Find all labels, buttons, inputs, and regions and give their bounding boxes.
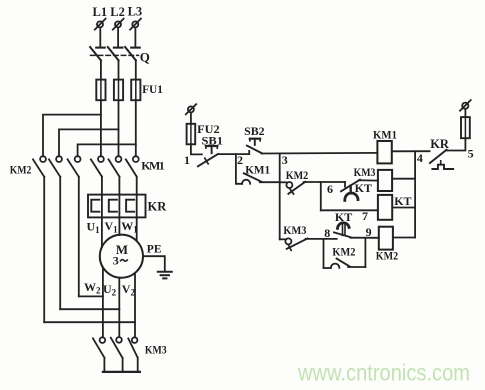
wire PE bbox=[143, 256, 165, 271]
KR heater element 3 bbox=[126, 200, 134, 212]
svg-text:L2: L2 bbox=[110, 5, 125, 19]
svg-text:5: 5 bbox=[468, 146, 474, 160]
contactor KM1 main contact 2 bbox=[109, 156, 122, 176]
wire KM3 star bus bbox=[103, 371, 140, 373]
wire FU2 to node 1 bbox=[191, 144, 202, 154]
wire KM2 pole2 down bbox=[59, 177, 61, 309]
fuse FU2 bbox=[187, 124, 196, 145]
svg-text:KT: KT bbox=[355, 181, 372, 195]
contact KM1 aux (NO) bbox=[242, 173, 280, 183]
svg-text:KT: KT bbox=[335, 210, 352, 224]
motor M circle bbox=[100, 235, 143, 278]
svg-text:FU1: FU1 bbox=[142, 82, 163, 96]
switch Q pole 1 bbox=[90, 47, 105, 60]
wire tap L2 to KM2 pole 2 bbox=[59, 129, 119, 156]
terminal L2 bbox=[113, 19, 124, 30]
ground PE symbol bbox=[158, 272, 172, 279]
svg-text:U2: U2 bbox=[103, 282, 117, 298]
fuse FU2 right pole bbox=[461, 117, 470, 138]
svg-text:V2: V2 bbox=[122, 282, 136, 298]
contact KT (NC delayed) bbox=[341, 180, 360, 201]
svg-text:KM3: KM3 bbox=[283, 223, 306, 237]
coil KM2 bbox=[379, 227, 393, 250]
switch Q pole 3 bbox=[125, 47, 140, 60]
pushbutton SB1 release tick bbox=[205, 158, 208, 164]
wire L2 to Q bbox=[117, 28, 119, 48]
wire node6 down to row B bbox=[320, 182, 322, 210]
svg-text:KR: KR bbox=[430, 137, 450, 151]
fuse FU1 pole 1 bbox=[96, 80, 105, 101]
svg-text:SB2: SB2 bbox=[244, 124, 265, 138]
wire terminal to FU2 bbox=[190, 113, 192, 124]
svg-text:4: 4 bbox=[417, 151, 423, 165]
svg-text:KM1: KM1 bbox=[245, 162, 270, 176]
KR actuator bump bbox=[432, 165, 453, 169]
svg-text:8: 8 bbox=[324, 226, 330, 240]
wire L3 to Q bbox=[134, 28, 136, 48]
svg-text:W2: W2 bbox=[84, 280, 101, 296]
svg-text:KM1: KM1 bbox=[141, 159, 165, 173]
wire L1 to Q bbox=[99, 28, 101, 48]
wire FU1 pole1 down to KM1 contact 1 bbox=[100, 100, 102, 156]
svg-text:Q: Q bbox=[140, 50, 150, 65]
wire jog KM2 pole2 to U2 bbox=[60, 308, 119, 310]
wire KM1 pole2 down through KR to motor bbox=[118, 177, 120, 235]
contact KM2 (NO aux) bbox=[324, 259, 366, 268]
wire jog KM2 pole3 to W2 bbox=[79, 295, 103, 297]
rail link KT coil bbox=[392, 207, 415, 209]
contactor KM3 contact 1 bbox=[93, 337, 105, 372]
wire KM2 NC to KT NC (node 6) bbox=[304, 181, 345, 183]
wire fuse to right terminal bbox=[464, 109, 466, 117]
wire KM1 coil to KR (node 4) bbox=[392, 150, 430, 152]
svg-text:L1: L1 bbox=[93, 5, 108, 19]
wire node2 down to KM1 aux bbox=[236, 154, 242, 184]
svg-text:9: 9 bbox=[366, 225, 372, 239]
svg-text:KR: KR bbox=[148, 200, 168, 214]
wire KM2 pole1 down bbox=[43, 177, 45, 322]
svg-text:PE: PE bbox=[147, 244, 162, 256]
pushbutton SB1 (NC) blade bbox=[198, 154, 218, 166]
svg-text:W1: W1 bbox=[121, 219, 138, 235]
contact KR (NC thermal) blade bbox=[430, 150, 447, 163]
thermal relay KR box bbox=[88, 195, 146, 218]
row A stub node3 to KM2 NC bbox=[280, 181, 287, 183]
switch Q linkage (dashed) bbox=[91, 54, 139, 56]
contactor KM3 contact 3 bbox=[128, 337, 137, 372]
svg-text:L3: L3 bbox=[128, 5, 143, 19]
terminal L3 bbox=[130, 19, 141, 30]
svg-text:KM1: KM1 bbox=[373, 128, 397, 142]
svg-text:www.cntronics.com: www.cntronics.com bbox=[297, 360, 470, 386]
fuse FU1 pole 3 bbox=[131, 80, 140, 101]
contactor KM1 main contact 3 bbox=[126, 156, 139, 176]
wire tap L3 to KM2 pole 3 bbox=[78, 144, 136, 156]
contactor KM1 main contact 1 bbox=[91, 156, 104, 176]
wire Q to FU1 pole 1 bbox=[100, 60, 102, 79]
coil KM1 bbox=[377, 141, 391, 163]
pushbutton SB2 (NO) blade bbox=[247, 146, 262, 154]
wire node3 vertical bbox=[279, 153, 281, 239]
wire node9 down to KM2 NO right bbox=[364, 238, 366, 267]
wire motor W2 down to KM3 bbox=[102, 267, 104, 337]
switch Q pole 2 bbox=[108, 47, 123, 60]
svg-text:V1: V1 bbox=[105, 219, 119, 235]
terminal (control left) bbox=[186, 104, 196, 114]
contactor KM2 main contact 1 bbox=[33, 156, 46, 177]
SB2 fixed contact tick bbox=[248, 151, 250, 154]
wire Q to FU1 pole 3 bbox=[135, 60, 137, 79]
wire motor V2 down to KM3 bbox=[134, 274, 136, 338]
wire Q to FU1 pole 2 bbox=[118, 60, 120, 79]
contactor KM2 main contact 3 bbox=[68, 156, 81, 177]
wire tap L1 to KM2 pole 1 bbox=[43, 115, 101, 157]
wire SB1 to SB2 (node 2) bbox=[218, 153, 249, 155]
svg-text:KM2: KM2 bbox=[10, 163, 32, 177]
contact KM3 (NC) bbox=[285, 238, 307, 250]
fuse FU1 pole 2 bbox=[114, 80, 123, 101]
KR heater element 2 bbox=[109, 200, 117, 212]
contactor KM3 contact 2 bbox=[111, 337, 123, 372]
wire KT NC to KM3 coil bbox=[359, 179, 378, 181]
terminal (control right) bbox=[460, 100, 471, 111]
wire KR to node 5 bbox=[446, 138, 466, 150]
wire FU1 pole3 down to KM1 contact 3 bbox=[135, 100, 137, 156]
wire KM3 NC to KT NO (node 8) bbox=[306, 238, 337, 240]
svg-text:KM2: KM2 bbox=[332, 245, 355, 259]
terminal L1 bbox=[95, 19, 106, 30]
KR actuator stem bbox=[440, 161, 442, 165]
wire KM2 pole3 down bbox=[78, 177, 80, 297]
pushbutton SB1 plunger bbox=[206, 146, 217, 153]
wire jog KM2 pole1 to V2 bbox=[44, 321, 135, 323]
svg-text:7: 7 bbox=[362, 209, 368, 223]
wire KT NO to KM2 coil (node 9) bbox=[350, 237, 379, 239]
KR heater element 1 bbox=[91, 200, 99, 212]
wire KM1 pole1 down through KR to motor bbox=[101, 177, 103, 248]
svg-text:KT: KT bbox=[394, 194, 411, 208]
right rail vertical bbox=[414, 151, 416, 237]
wire node8 down to KM2 NO bbox=[323, 239, 325, 268]
svg-text:KM3: KM3 bbox=[145, 343, 167, 357]
wire KM1 pole3 down through KR to motor bbox=[136, 177, 138, 241]
svg-text:KM2: KM2 bbox=[376, 249, 398, 263]
coil KM3 bbox=[378, 170, 392, 191]
svg-text:KM2: KM2 bbox=[286, 168, 309, 182]
wire motor U2 down to KM3 bbox=[118, 278, 120, 337]
svg-text:2: 2 bbox=[237, 153, 243, 167]
svg-text:1: 1 bbox=[184, 153, 190, 167]
svg-text:3: 3 bbox=[113, 254, 119, 268]
wire SB2 to KM1 coil (top line, node 3) bbox=[262, 152, 378, 155]
svg-text:3: 3 bbox=[282, 153, 288, 167]
svg-text:U1: U1 bbox=[87, 220, 101, 236]
rail link KM3 coil bbox=[392, 178, 415, 180]
rail link KM2 coil bbox=[393, 237, 415, 239]
contact KT (NO delayed) bbox=[334, 223, 350, 237]
coil KT bbox=[378, 195, 392, 220]
wire row B to KT coil (node 7) bbox=[321, 209, 378, 211]
contact KM2 (NC) bbox=[286, 182, 305, 194]
contactor KM2 main contact 2 bbox=[49, 156, 62, 177]
svg-text:KM3: KM3 bbox=[354, 165, 376, 179]
row C stub node3 to KM3 NC bbox=[280, 238, 286, 240]
svg-text:6: 6 bbox=[327, 182, 333, 196]
wire FU1 pole2 down to KM1 contact 2 bbox=[118, 100, 120, 156]
pushbutton SB2 (NO) plunger bbox=[250, 139, 260, 145]
